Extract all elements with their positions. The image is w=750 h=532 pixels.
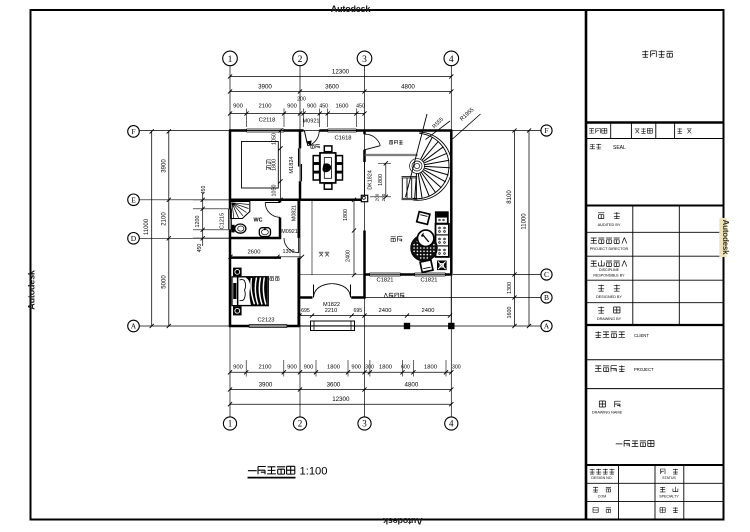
bed pillow [240, 280, 246, 301]
svg-text:PROJECT: PROJECT [634, 367, 654, 372]
top dim row 3900 3600 4800 [230, 91, 451, 93]
axis bubble A right [541, 320, 552, 331]
svg-text:Autodesk: Autodesk [331, 4, 372, 14]
svg-text:SPECIALTY: SPECIALTY [659, 495, 679, 499]
svg-text:C: C [544, 270, 549, 279]
盖章 SEAL label [590, 144, 602, 149]
spiral stair treads radial lines [415, 137, 450, 199]
leader R1955 [453, 114, 481, 139]
title block: project logo box text 轻钢别墅 [642, 51, 673, 58]
box 施工单位 CLIENT [586, 359, 724, 361]
axis line E stub [139, 199, 232, 201]
svg-text:12300: 12300 [332, 69, 350, 76]
wall axis2 kitchen east [299, 131, 302, 149]
svg-text:3900: 3900 [259, 381, 273, 388]
window C1821 right [415, 272, 446, 274]
label 卧室 [270, 277, 280, 281]
axis bubble 4 bottom [445, 417, 458, 430]
svg-text:1800: 1800 [327, 364, 340, 370]
svg-text:DRAWING BY: DRAWING BY [597, 317, 622, 321]
cell 阶段 STATUS [660, 469, 678, 474]
svg-text:F: F [131, 127, 135, 136]
svg-text:900: 900 [304, 364, 314, 370]
row 制图 DRAWING BY [586, 324, 724, 326]
right dim overall 11000 [528, 131, 530, 327]
wall C axis living room south [365, 273, 370, 276]
axis bubble D left [128, 233, 140, 245]
wall right exterior 4 axis [450, 131, 453, 276]
版次 cell [674, 123, 676, 139]
axis line D stub [139, 237, 232, 239]
porch column mid [404, 323, 409, 328]
label 电视柜 [389, 140, 403, 144]
svg-text:200: 200 [381, 193, 386, 201]
bed [238, 277, 269, 306]
svg-text:A: A [544, 322, 550, 331]
svg-text:WC: WC [254, 218, 263, 224]
svg-text:900: 900 [287, 364, 297, 370]
label 入户门廊 [384, 293, 404, 297]
personnel table frame [586, 205, 724, 207]
svg-text:3: 3 [362, 55, 367, 65]
axis bubble 1 bottom [223, 417, 236, 430]
svg-text:SEAL: SEAL [613, 145, 626, 151]
svg-text:D: D [131, 234, 137, 243]
axis bubble A left [128, 320, 140, 332]
svg-text:11000: 11000 [144, 218, 150, 235]
svg-text:AUDITED BY: AUDITED BY [598, 223, 621, 227]
porch column right [449, 323, 454, 328]
wall left exterior [229, 131, 232, 209]
svg-text:1800: 1800 [378, 174, 384, 186]
clock ornament on table [418, 230, 434, 246]
svg-text:CLIENT: CLIENT [634, 333, 649, 338]
cell 图号 [660, 507, 678, 512]
svg-text:1050: 1050 [272, 185, 278, 197]
svg-text:1: 1 [228, 55, 233, 65]
svg-text:3900: 3900 [161, 159, 167, 173]
axis line 3 vertical [364, 66, 366, 417]
svg-text:4800: 4800 [405, 381, 419, 388]
svg-text:1:100: 1:100 [300, 466, 328, 478]
svg-text:12300: 12300 [332, 396, 350, 403]
svg-text:300: 300 [452, 364, 461, 370]
svg-text:1200: 1200 [195, 216, 201, 228]
svg-text:695: 695 [301, 308, 310, 314]
svg-text:C2123: C2123 [257, 318, 274, 324]
drawing title 一层平面图 1:100 [248, 466, 295, 474]
row 设计 DESIGNED BY [586, 302, 724, 304]
axis bubble 2 top [293, 51, 308, 66]
axis bubble C right [541, 269, 552, 280]
svg-text:1800: 1800 [424, 364, 437, 370]
bedroom dim 2600 1300 [230, 256, 302, 258]
wash basin [259, 228, 270, 237]
svg-text:2400: 2400 [379, 308, 392, 314]
svg-text:3: 3 [362, 419, 367, 429]
armchair top right dark back [436, 212, 448, 223]
svg-text:450: 450 [356, 104, 365, 110]
title block: row 正式图/条件图/版次 top line [586, 121, 724, 123]
svg-text:3600: 3600 [327, 381, 341, 388]
axis bubble 3 top [357, 51, 372, 66]
正式图 cell [610, 123, 612, 139]
svg-text:2100: 2100 [259, 364, 272, 370]
svg-text:450: 450 [197, 244, 203, 253]
svg-text:C1215: C1215 [219, 213, 225, 229]
window C2118 top wall [247, 128, 285, 130]
svg-text:4: 4 [449, 419, 454, 429]
axis line C thin through hall [299, 274, 365, 276]
svg-text:M1822: M1822 [323, 302, 340, 308]
nightstand north [233, 268, 242, 277]
top dim row overall 12300 [230, 76, 451, 78]
svg-text:600: 600 [401, 364, 410, 370]
svg-text:1800: 1800 [379, 364, 392, 370]
svg-text:4800: 4800 [401, 84, 415, 91]
axis bubble F left [128, 126, 140, 138]
axis bubble 1 top [223, 51, 238, 66]
svg-text:STATUS: STATUS [662, 476, 676, 480]
right dim 8100 1300 1600 [514, 131, 516, 327]
svg-text:F: F [544, 126, 548, 135]
DK1824 opening dim 1800 [385, 163, 387, 197]
svg-text:RESPONSIBLE BY: RESPONSIBLE BY [593, 274, 625, 278]
svg-text:900: 900 [233, 104, 243, 110]
door M0921 bedroom corridor arc [298, 238, 300, 253]
bottom info table [586, 464, 724, 466]
wall D axis WC south [230, 237, 281, 240]
leader R555 [426, 121, 451, 140]
svg-text:1600: 1600 [336, 104, 349, 110]
svg-text:2100: 2100 [259, 104, 272, 110]
kitchen counter [242, 142, 279, 189]
svg-text:2400: 2400 [346, 250, 352, 262]
box 工程名称 PROJECT [586, 388, 724, 390]
door M0821 wc arc [265, 202, 280, 204]
armchair bottom [420, 260, 433, 272]
svg-text:450: 450 [201, 186, 207, 195]
cell 张数 COM [593, 487, 611, 492]
axis line 1 vertical [229, 66, 231, 417]
svg-text:900: 900 [287, 104, 297, 110]
axis line C stub right [453, 274, 541, 276]
wall WC east [279, 200, 282, 203]
svg-text:1600: 1600 [507, 307, 513, 319]
svg-text:DK1824: DK1824 [368, 170, 374, 189]
spiral stair outer arc [413, 133, 449, 198]
svg-text:C1821: C1821 [376, 278, 393, 284]
window C1821 left [370, 272, 401, 274]
svg-text:900: 900 [351, 364, 361, 370]
entry steps [311, 321, 355, 331]
spiral stair newel [414, 163, 419, 168]
svg-text:3600: 3600 [325, 84, 339, 91]
round tea table [411, 235, 437, 261]
row 工程负责人 PROJECT DIRECTOR [586, 255, 724, 257]
wall hall east / living west [363, 231, 366, 299]
stair handrail to wall [365, 153, 418, 155]
svg-text:2: 2 [298, 55, 303, 65]
wall axis3 dining east [363, 131, 366, 135]
title block left edge [585, 10, 588, 520]
svg-text:Autodesk: Autodesk [382, 516, 423, 526]
row divider under 正式图 row [586, 138, 724, 140]
wall bedroom north [230, 256, 281, 259]
top dim detail row [230, 113, 365, 115]
svg-text:900: 900 [307, 104, 317, 110]
svg-text:A: A [131, 322, 137, 331]
Autodesk watermark right (rotated, highlighted) [719, 218, 726, 257]
条件图 cell [630, 123, 632, 139]
svg-text:300: 300 [365, 364, 374, 370]
left dim overall 11000 [151, 131, 153, 326]
svg-text:2100: 2100 [161, 212, 167, 226]
axis line 2 vertical [299, 66, 301, 417]
column marker at axis3/E [361, 195, 367, 201]
bottom dim row 3900 3600 4800 [230, 389, 451, 391]
bottom dim detail row [230, 371, 451, 373]
svg-text:DESIGNED BY: DESIGNED BY [596, 295, 622, 299]
bottom dim row overall 12300 [230, 403, 451, 405]
label 厨房 vertical [267, 160, 271, 170]
svg-text:Autodesk: Autodesk [27, 269, 37, 310]
door M0921 top wall arc [304, 131, 308, 146]
axis bubble F right [541, 125, 552, 136]
axis bubble 2 bottom [293, 417, 306, 430]
axis line B thin through porch [365, 297, 542, 299]
svg-text:C1618: C1618 [334, 136, 351, 142]
svg-text:DESIGN NO.: DESIGN NO. [591, 476, 612, 480]
cell 设计编号 DESIGN NO [590, 469, 615, 474]
axis line A horizontal [139, 325, 541, 327]
toilet [231, 225, 234, 233]
bed blanket scribble [246, 277, 268, 305]
dining table [320, 153, 336, 183]
hall floor edge line [311, 200, 313, 275]
wall bottom bedroom A axis [229, 325, 249, 328]
left dim 3900 2100 5000 [168, 131, 170, 326]
axis line 4 vertical [450, 66, 452, 417]
axis bubble B right [541, 292, 552, 303]
hall dim 1800 2400 vertical [353, 200, 355, 275]
box 图名 DRAWING NAME [599, 401, 620, 407]
stair lower flight [402, 176, 418, 178]
svg-text:2: 2 [298, 419, 303, 429]
row 专业负责人 DISCIPLINE RESPONSIBLE BY [586, 279, 724, 281]
svg-text:PROJECT DIRECTOR: PROJECT DIRECTOR [590, 247, 629, 251]
porch edge A axis [300, 325, 452, 327]
sofa along right wall [436, 224, 449, 257]
svg-text:Autodesk: Autodesk [721, 220, 730, 256]
shower corner [231, 202, 250, 219]
window C1215 left wall [228, 209, 230, 230]
svg-text:2600: 2600 [248, 249, 261, 255]
svg-text:200: 200 [375, 193, 380, 201]
nightstand south [233, 306, 242, 315]
bed headboard [232, 277, 238, 306]
svg-text:M0821: M0821 [291, 205, 297, 221]
svg-text:1: 1 [228, 419, 233, 429]
svg-text:2400: 2400 [422, 308, 435, 314]
wall B axis hall south [299, 296, 313, 299]
cell 日期 [593, 508, 611, 513]
door M0921 axis3 wall arc [365, 146, 381, 150]
sliding door M1824 [298, 148, 300, 166]
wall bedroom east [297, 258, 300, 326]
dining chairs [324, 146, 332, 152]
axis bubble 3 bottom [358, 417, 371, 430]
svg-text:M0921: M0921 [281, 229, 297, 235]
window C2123 bottom wall [249, 324, 287, 326]
svg-text:C1821: C1821 [420, 278, 437, 284]
wall top F axis segments [229, 129, 247, 132]
svg-text:B: B [544, 293, 549, 302]
porch dim 695 2210 695 2400 2400 [300, 315, 451, 317]
window C1618 top wall [328, 128, 357, 130]
title underline [248, 477, 296, 479]
wall hall west upper [297, 200, 300, 238]
left dim 450 1200 450 window C1215 [202, 193, 204, 246]
svg-text:900: 900 [233, 364, 243, 370]
svg-text:1800: 1800 [272, 159, 278, 171]
svg-text:1050: 1050 [272, 133, 278, 145]
svg-text:200: 200 [297, 97, 306, 103]
label 客厅 [391, 237, 403, 242]
svg-text:E: E [131, 196, 136, 205]
row 审核 AUDITED BY [586, 231, 724, 233]
svg-text:2210: 2210 [325, 308, 337, 314]
svg-text:3900: 3900 [258, 84, 272, 91]
cell 专业 SPECIALTY [660, 487, 678, 492]
stair section cut line [406, 114, 428, 197]
side table with cross [437, 261, 447, 271]
svg-text:11000: 11000 [521, 213, 527, 230]
armchair top left [417, 212, 430, 225]
svg-text:DRAWING NAME: DRAWING NAME [592, 411, 623, 415]
svg-text:695: 695 [353, 308, 362, 314]
svg-text:DISCIPLINE: DISCIPLINE [599, 268, 620, 272]
axis line F horizontal [139, 130, 541, 132]
svg-text:M1824: M1824 [289, 156, 295, 173]
double door M1822 entry [313, 285, 315, 298]
svg-text:4: 4 [449, 55, 454, 65]
svg-text:450: 450 [319, 104, 328, 110]
porch right edge [450, 275, 452, 327]
drawing name 一层平面图 in title block [616, 441, 654, 447]
axis bubble 4 top [444, 51, 459, 66]
svg-text:COM: COM [598, 495, 606, 499]
svg-text:M0921: M0921 [302, 118, 319, 124]
svg-text:C2118: C2118 [259, 118, 276, 124]
DK1824 opening pass line [364, 162, 366, 197]
axis bubble E left [128, 194, 140, 206]
svg-text:1300: 1300 [507, 282, 513, 294]
label 餐厅 [310, 144, 319, 148]
wall E axis kitchen/wc south [230, 199, 365, 202]
kitchen dim 1050 1800 1050 [280, 131, 282, 200]
svg-text:1800: 1800 [343, 209, 349, 221]
label 玄关 [319, 252, 329, 256]
svg-text:8100: 8100 [507, 190, 513, 204]
svg-text:5000: 5000 [161, 275, 167, 289]
